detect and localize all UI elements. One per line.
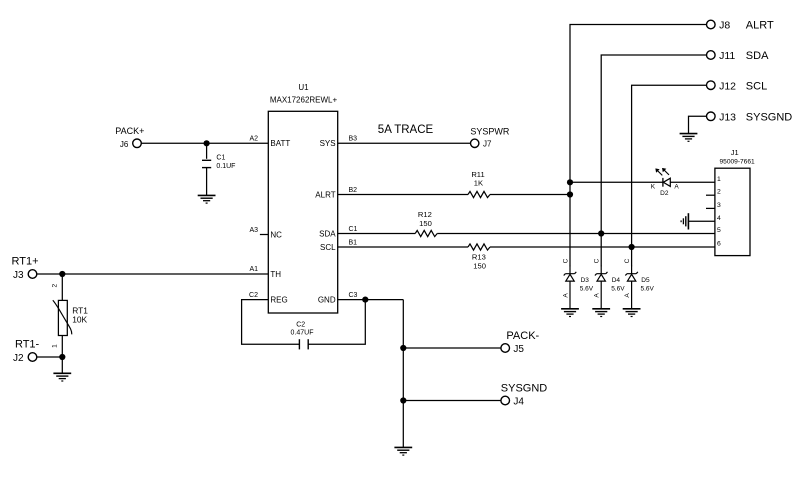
svg-text:MAX17262REWL+: MAX17262REWL+ [270, 95, 338, 104]
svg-text:0.1UF: 0.1UF [216, 163, 235, 170]
svg-text:C: C [563, 258, 570, 263]
svg-text:1: 1 [52, 344, 59, 348]
svg-text:5A TRACE: 5A TRACE [378, 124, 434, 136]
svg-text:3: 3 [717, 202, 721, 209]
svg-text:D4: D4 [612, 277, 621, 284]
svg-text:A1: A1 [249, 266, 258, 273]
svg-text:TH: TH [270, 270, 281, 279]
svg-text:J8: J8 [719, 20, 730, 32]
svg-text:1: 1 [717, 176, 721, 183]
svg-text:150: 150 [419, 219, 432, 228]
svg-text:B2: B2 [349, 187, 358, 194]
svg-text:ALRT: ALRT [315, 190, 335, 199]
svg-text:1K: 1K [474, 179, 483, 188]
svg-text:D2: D2 [660, 190, 669, 197]
svg-text:5.6V: 5.6V [611, 286, 625, 293]
svg-text:C3: C3 [349, 292, 358, 299]
svg-text:95009-7661: 95009-7661 [719, 159, 755, 166]
svg-text:A: A [562, 293, 569, 298]
svg-text:PACK+: PACK+ [115, 126, 144, 136]
svg-text:D5: D5 [641, 277, 650, 284]
svg-text:GND: GND [318, 295, 336, 304]
svg-text:SDA: SDA [746, 50, 769, 62]
svg-text:A: A [674, 184, 679, 191]
svg-text:A: A [624, 293, 631, 298]
svg-text:SYSPWR: SYSPWR [470, 127, 510, 137]
svg-text:RT1-: RT1- [15, 339, 40, 351]
svg-text:J13: J13 [719, 111, 736, 123]
svg-text:SCL: SCL [320, 243, 336, 252]
svg-text:C2: C2 [296, 321, 305, 328]
svg-text:J3: J3 [13, 270, 24, 281]
svg-text:C1: C1 [349, 226, 358, 233]
svg-text:6: 6 [717, 241, 721, 248]
svg-text:B3: B3 [349, 136, 358, 143]
svg-text:A3: A3 [249, 227, 258, 234]
svg-text:5: 5 [717, 227, 721, 234]
svg-text:B1: B1 [349, 239, 358, 246]
svg-text:5.6V: 5.6V [641, 286, 655, 293]
svg-text:SCL: SCL [746, 80, 767, 92]
svg-text:4: 4 [717, 215, 721, 222]
svg-text:C1: C1 [216, 155, 225, 162]
svg-text:BATT: BATT [270, 139, 290, 148]
svg-text:2: 2 [717, 189, 721, 196]
svg-text:R12: R12 [418, 210, 432, 219]
svg-text:ALRT: ALRT [746, 20, 774, 32]
svg-text:0.47UF: 0.47UF [291, 330, 314, 337]
svg-text:K: K [651, 184, 656, 191]
svg-text:SYSGND: SYSGND [746, 111, 793, 123]
svg-text:2: 2 [52, 284, 59, 288]
svg-text:SDA: SDA [319, 229, 336, 238]
svg-text:SYSGND: SYSGND [501, 382, 548, 394]
svg-text:5.6V: 5.6V [580, 286, 594, 293]
svg-text:J4: J4 [513, 397, 524, 408]
svg-text:U1: U1 [298, 83, 309, 92]
svg-text:150: 150 [473, 262, 486, 271]
svg-text:PACK-: PACK- [506, 330, 539, 342]
svg-text:R11: R11 [471, 170, 484, 179]
svg-text:A2: A2 [249, 136, 258, 143]
svg-text:C2: C2 [249, 292, 258, 299]
svg-text:NC: NC [270, 230, 282, 239]
svg-text:RT1+: RT1+ [11, 255, 38, 267]
svg-text:J11: J11 [719, 50, 735, 62]
svg-text:J2: J2 [13, 353, 24, 364]
svg-text:A: A [594, 293, 601, 298]
svg-text:J12: J12 [719, 80, 736, 92]
svg-text:REG: REG [270, 295, 287, 304]
svg-text:J1: J1 [731, 148, 739, 157]
svg-text:J5: J5 [513, 344, 524, 355]
svg-text:J6: J6 [120, 140, 129, 149]
svg-text:10K: 10K [72, 315, 87, 325]
svg-text:C: C [594, 258, 601, 263]
svg-text:D3: D3 [581, 277, 590, 284]
svg-text:R13: R13 [472, 253, 486, 262]
svg-text:J7: J7 [483, 140, 492, 149]
svg-text:SYS: SYS [320, 139, 336, 148]
svg-text:C: C [624, 258, 631, 263]
